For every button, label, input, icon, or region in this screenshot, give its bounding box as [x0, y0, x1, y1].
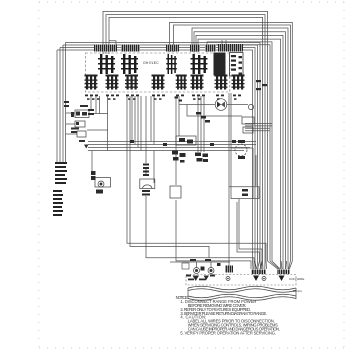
- svg-text:BK/LG: BK/LG: [293, 289, 303, 293]
- svg-text:5. VERIFY PROPER OPERATION AFT: 5. VERIFY PROPER OPERATION AFTER SERVICI…: [180, 330, 276, 335]
- svg-text:GH ELEC: GH ELEC: [143, 61, 159, 65]
- svg-text:CON WIRE: CON WIRE: [289, 277, 304, 281]
